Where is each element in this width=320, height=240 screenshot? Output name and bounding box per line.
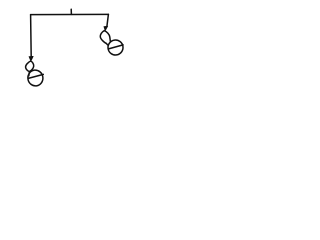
arrowhead on right string (points down) xyxy=(104,26,108,31)
balloon B1 neck (teardrop with knot tail) xyxy=(26,61,34,72)
wire: top horizontal support bar xyxy=(31,13,109,15)
balloon B2 chord line xyxy=(109,45,124,49)
arrowhead on left string (points down) xyxy=(29,56,33,61)
node: hook tick at top middle xyxy=(70,9,72,14)
balloon B2 neck left side xyxy=(100,31,106,44)
wire: right string from bar down to right arrow xyxy=(107,14,109,26)
balloon B1 chord line xyxy=(28,74,43,78)
wire: left string from bar down to left arrow xyxy=(30,15,33,57)
balloon B2 neck right side (merges into body arc) xyxy=(104,31,110,42)
balloon B2 body (circle) xyxy=(107,39,124,56)
balloon B2 knot tail to body xyxy=(106,43,107,44)
balloon B1 body (circle) xyxy=(27,69,44,87)
balloon B1 knot tail to body xyxy=(28,72,31,76)
